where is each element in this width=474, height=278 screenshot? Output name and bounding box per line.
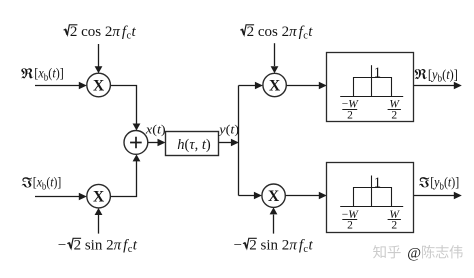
wire: X1 output elbow down to adder [110, 86, 136, 124]
svg-text:2: 2 [391, 110, 397, 122]
svg-text:X: X [269, 77, 281, 94]
wire: Im xb input into X2 [35, 196, 80, 198]
filter 2 label -W/2 [342, 209, 360, 232]
svg-text:[xb(t)]: [xb(t)] [34, 67, 64, 84]
wire: branch vertical line [238, 86, 240, 196]
svg-text:2: 2 [391, 220, 397, 232]
filter 2 label W/2 [388, 209, 401, 232]
wire: carrier arrow stem into X4 (bottom) [273, 215, 275, 234]
label: Re xb(t) input [21, 67, 64, 84]
arrowhead: into adder top [133, 124, 141, 131]
multiplier X4 [262, 184, 285, 207]
svg-text:x(t): x(t) [145, 121, 166, 136]
svg-text:−: − [58, 238, 66, 254]
wire: filter box 1 output [414, 85, 455, 87]
wire: top branch into X3 [239, 85, 256, 87]
svg-text:[yb(t)]: [yb(t)] [430, 176, 459, 193]
wire: X2 output elbow up to adder [110, 161, 136, 197]
label: minus sqrt2 sin 2pi fc t (bottom right) [234, 238, 314, 256]
svg-text:X: X [268, 188, 280, 205]
block: h(tau,t) channel box [166, 132, 219, 156]
label: minus sqrt2 sin 2pi fc t (bottom left) [58, 238, 138, 256]
wire: X4 output into filter box 2 [285, 195, 320, 197]
wire: bottom branch into X4 [239, 195, 255, 197]
multiplier X1 [87, 73, 111, 97]
svg-text:[yb(t)]: [yb(t)] [428, 68, 458, 85]
arrowhead: into filter box 2 [319, 192, 327, 199]
arrowhead: into X1 top [95, 66, 103, 73]
arrowhead: into X3 top [271, 66, 279, 73]
filter 2 vertical axis [371, 176, 373, 207]
arrowhead: into h box [158, 139, 166, 146]
arrowhead: into branch node [231, 139, 239, 146]
filter 1 label W/2 [388, 99, 401, 122]
filter 1 rect pulse [354, 78, 392, 97]
svg-text:2: 2 [347, 110, 353, 122]
svg-text:1: 1 [374, 175, 381, 191]
filter 2 frequency axis [340, 206, 403, 208]
arrowhead: into X4 bottom [270, 207, 278, 214]
svg-text:−: − [234, 238, 242, 254]
block: filter box 1 (ideal lowpass) [327, 53, 414, 122]
arrowhead: into X3 left [255, 82, 263, 89]
arrowhead: Im yb output [454, 192, 462, 199]
label: sqrt2 cos 2pi fc t (top left) [64, 24, 137, 42]
label: Im xb(t) input [22, 176, 62, 193]
arrowhead: into X4 left [254, 192, 262, 199]
arrowhead: Re yb output [454, 82, 462, 89]
filter 1 label -W/2 [342, 99, 360, 122]
arrowhead: into filter box 1 [319, 82, 327, 89]
wire: X3 output into filter box 1 [286, 85, 320, 87]
svg-text:X: X [93, 189, 105, 206]
wire: adder output into h box [148, 142, 159, 144]
arrowhead: into adder bottom [133, 154, 141, 161]
svg-text:@: @ [407, 245, 421, 261]
svg-text:2: 2 [347, 220, 353, 232]
watermark: zhihu @ chen zhiwei [373, 245, 463, 261]
wire: h box output to branch node [219, 142, 232, 144]
svg-text:y(t): y(t) [217, 121, 239, 136]
wire: Re xb input into X1 [35, 85, 80, 87]
filter 2 rect pulse [354, 188, 392, 207]
wire: carrier arrow stem into multiplier X1 (top) [98, 44, 100, 67]
filter 1 frequency axis [340, 96, 403, 98]
multiplier X3 [263, 73, 286, 96]
label: sqrt2 cos 2pi fc t (top right) [240, 24, 313, 42]
arrowhead: into X2 bottom [95, 208, 103, 215]
wire: carrier arrow stem into X3 (top) [274, 43, 276, 66]
wire: filter box 2 output [414, 195, 455, 197]
label: Im yb(t) output [419, 176, 459, 193]
svg-text:X: X [93, 77, 105, 94]
svg-text:h(τ, t): h(τ, t) [177, 137, 211, 153]
arrowhead: into X1 left [79, 82, 87, 89]
label: Re yb(t) output [415, 68, 458, 85]
filter 1 vertical axis [371, 65, 373, 96]
svg-text:1: 1 [374, 65, 381, 81]
svg-text:[xb(t)]: [xb(t)] [33, 176, 62, 193]
arrowhead: into X2 left [79, 193, 87, 200]
multiplier X2 [87, 184, 111, 208]
wire: carrier arrow stem into X2 (bottom) [98, 215, 100, 234]
adder (summing junction) [124, 131, 148, 155]
block: filter box 2 (ideal lowpass) [327, 163, 414, 233]
